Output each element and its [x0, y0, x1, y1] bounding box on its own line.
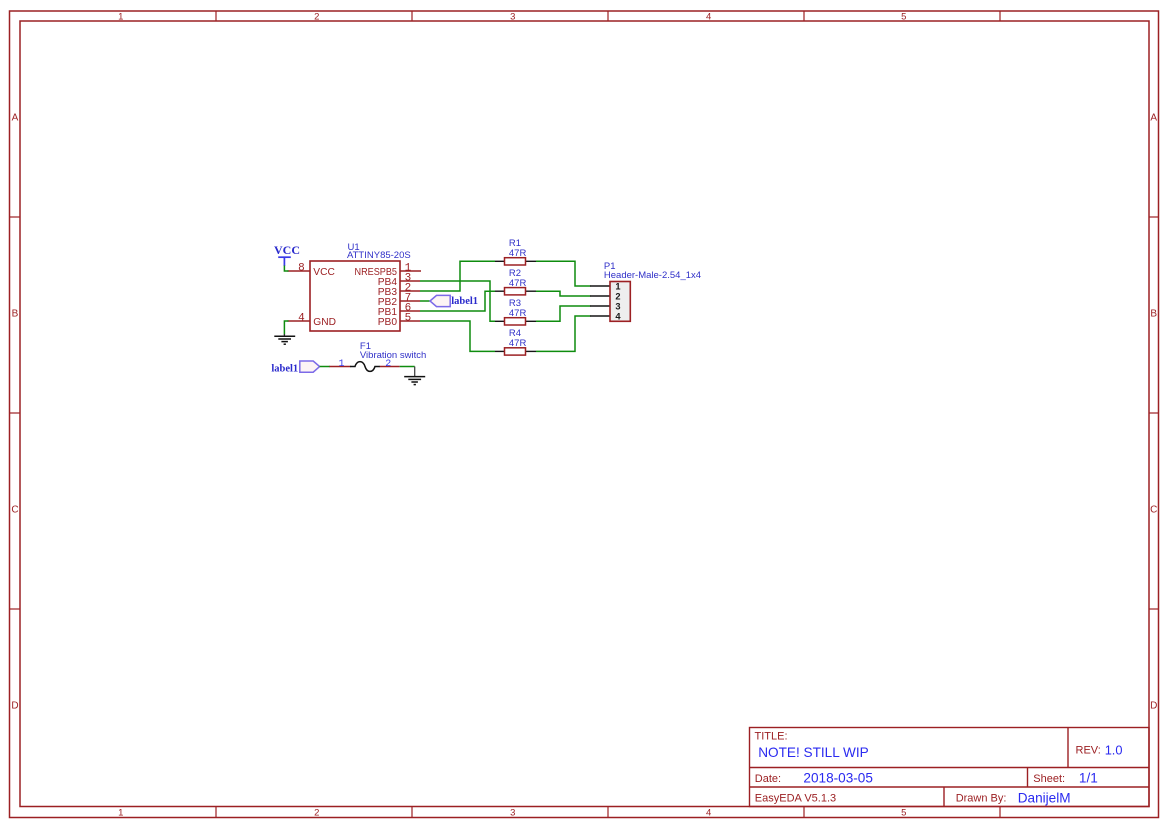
svg-text:3: 3	[510, 808, 515, 819]
U1 pin 1 NRESPB5	[400, 270, 421, 272]
svg-text:A: A	[1150, 113, 1157, 124]
svg-text:EasyEDA V5.1.3: EasyEDA V5.1.3	[755, 792, 836, 804]
svg-text:GND: GND	[313, 317, 336, 328]
column ticks bottom	[216, 807, 1000, 818]
row ticks left	[10, 217, 21, 609]
svg-text:4: 4	[706, 808, 711, 819]
U1 pin 6 PB1	[400, 310, 420, 312]
P1 pin 3	[590, 305, 610, 307]
svg-text:DanijelM: DanijelM	[1018, 790, 1071, 805]
connector P1	[590, 261, 701, 321]
svg-text:1: 1	[118, 808, 123, 819]
wire R3 to P1 pin3	[536, 306, 591, 321]
svg-text:C: C	[1150, 505, 1157, 516]
svg-text:D: D	[1150, 701, 1157, 712]
svg-text:PB0: PB0	[378, 317, 398, 328]
U1 pin 4 GND	[288, 320, 311, 322]
svg-text:Header-Male-2.54_1x4: Header-Male-2.54_1x4	[604, 270, 701, 281]
svg-text:NOTE! STILL WIP: NOTE! STILL WIP	[758, 745, 869, 760]
ruler letters right	[1150, 113, 1157, 712]
wire PB4 to R3 (left)	[420, 281, 495, 321]
wire PB1 to R2 (left)	[420, 291, 495, 311]
U1 pin 7 PB2	[400, 300, 420, 302]
svg-text:Vibration switch: Vibration switch	[360, 350, 426, 361]
wire VCC to pin8	[284, 266, 288, 272]
svg-text:4: 4	[615, 311, 621, 321]
svg-text:4: 4	[706, 12, 711, 23]
svg-text:1: 1	[338, 359, 344, 370]
P1 body	[610, 282, 630, 322]
svg-text:ATTINY85-20S: ATTINY85-20S	[347, 250, 411, 261]
U1 body	[310, 261, 400, 331]
ruler numbers bottom	[118, 808, 906, 819]
svg-text:D: D	[11, 701, 18, 712]
svg-text:2: 2	[615, 291, 620, 301]
wire F1 pin2 to ground	[400, 366, 415, 368]
svg-text:1: 1	[615, 281, 620, 291]
svg-text:C: C	[11, 505, 18, 516]
svg-text:TITLE:: TITLE:	[755, 730, 788, 742]
svg-text:4: 4	[298, 313, 305, 325]
wire PB2 to netflag	[420, 300, 430, 302]
resistor R2	[495, 268, 536, 295]
svg-text:2: 2	[385, 359, 391, 370]
wire PB3 to R1 (left)	[420, 261, 495, 291]
U1 pin 8 VCC	[288, 270, 311, 272]
F1 pin 2	[380, 366, 400, 368]
svg-text:VCC: VCC	[313, 267, 335, 278]
svg-text:label1: label1	[451, 296, 478, 307]
U1 pin 5 PB0	[400, 320, 420, 322]
wire PB0 to R4 (left)	[420, 321, 495, 351]
svg-text:8: 8	[298, 263, 305, 275]
ground (F1)	[404, 367, 425, 385]
svg-text:3: 3	[615, 301, 620, 311]
ground (U1 GND)	[274, 334, 295, 344]
svg-text:Date:: Date:	[755, 773, 781, 785]
row ticks right	[1149, 217, 1159, 609]
resistor R3	[495, 298, 536, 325]
svg-text:B: B	[1150, 309, 1157, 320]
resistor R1	[495, 238, 536, 265]
ruler letters left	[11, 113, 18, 712]
wire label1 to F1 pin1	[320, 366, 330, 368]
wire R4 to P1 pin4	[536, 316, 591, 351]
svg-text:2018-03-05: 2018-03-05	[803, 771, 873, 786]
U1 pin 2 PB3	[400, 290, 420, 292]
svg-text:3: 3	[510, 12, 515, 23]
wire pin4 to ground	[284, 321, 288, 335]
svg-text:1: 1	[118, 12, 123, 23]
svg-text:5: 5	[405, 313, 412, 325]
column ticks top	[216, 11, 1000, 21]
title block frame	[750, 728, 1150, 807]
P1 pin 4	[590, 315, 610, 317]
wire R2 to P1 pin2	[536, 291, 591, 296]
resistor R4	[495, 328, 536, 355]
svg-text:label1: label1	[271, 364, 298, 375]
net flag label1 (at F1)	[271, 361, 319, 375]
svg-text:1.0: 1.0	[1105, 743, 1123, 758]
F1 switch glyph	[350, 362, 380, 372]
P1 pin 2	[590, 295, 610, 297]
svg-text:REV:: REV:	[1076, 745, 1101, 757]
svg-text:Drawn By:: Drawn By:	[956, 792, 1007, 804]
net flag label1 (at PB2)	[430, 295, 478, 306]
svg-text:A: A	[12, 113, 19, 124]
ruler numbers top	[118, 12, 906, 23]
svg-text:Sheet:: Sheet:	[1033, 773, 1065, 785]
F1 pin 1	[330, 366, 351, 368]
U1 pin 3 PB4	[400, 280, 420, 282]
power flag VCC	[274, 243, 300, 266]
svg-text:2: 2	[314, 12, 319, 23]
svg-text:5: 5	[901, 12, 906, 23]
svg-text:1/1: 1/1	[1079, 771, 1098, 786]
wire R1 to P1 pin1	[536, 261, 591, 286]
svg-text:5: 5	[901, 808, 906, 819]
svg-text:2: 2	[314, 808, 319, 819]
svg-text:VCC: VCC	[274, 243, 300, 257]
P1 pin 1	[590, 285, 610, 287]
svg-text:B: B	[12, 309, 19, 320]
fuse F1 Vibration switch	[330, 341, 427, 371]
